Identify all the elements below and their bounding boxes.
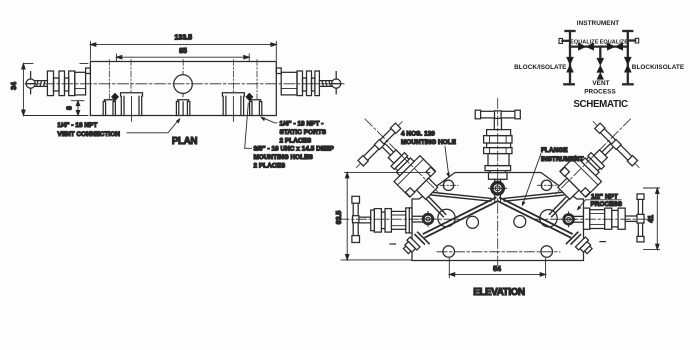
purge plug left	[401, 237, 420, 256]
equalize valve right	[607, 43, 622, 50]
right diagonal valve V7	[543, 119, 642, 218]
instrument port center	[488, 173, 507, 202]
vent line	[599, 47, 601, 60]
svg-text:1/4" - 18 NPT: 1/4" - 18 NPT	[57, 122, 97, 129]
svg-text:54: 54	[493, 266, 501, 273]
mounting hole top-left	[443, 180, 453, 190]
passage left end cap	[415, 232, 429, 244]
right valve V2 nut stack (plan)	[297, 71, 303, 96]
port marker diamond right	[245, 93, 253, 102]
instrument line right	[623, 31, 633, 84]
purge plug right	[575, 237, 594, 256]
instrument line left	[564, 31, 574, 84]
svg-text:2 PLACES: 2 PLACES	[254, 163, 286, 170]
dimension 54	[449, 259, 545, 278]
svg-text:1/4" - 18 NPT -: 1/4" - 18 NPT -	[280, 121, 324, 128]
static port cap P3 (plan)	[250, 100, 262, 116]
leader static ports	[262, 118, 277, 123]
leader mounting hole	[445, 147, 449, 175]
dimension 34	[22, 64, 88, 116]
cap centerlines (plan)	[109, 60, 257, 100]
right process valve V5	[584, 194, 645, 242]
manifold body (plan)	[90, 62, 276, 116]
port marker diamond left	[111, 93, 119, 102]
vent valve	[597, 58, 604, 72]
equalize line	[570, 45, 628, 47]
svg-text:EQUALIZE: EQUALIZE	[570, 39, 599, 45]
mounting cap M1 (plan)	[121, 93, 143, 116]
vent cap P2 (plan)	[176, 100, 189, 116]
svg-text:85: 85	[179, 48, 187, 55]
svg-text:BLOCK/ISOLATE: BLOCK/ISOLATE	[632, 64, 685, 71]
left process valve V4	[352, 196, 412, 242]
svg-text:PROCESS: PROCESS	[584, 88, 616, 95]
mounting cap M2 (plan)	[222, 93, 244, 116]
dimension 63.5	[341, 172, 430, 260]
svg-text:41: 41	[648, 215, 655, 223]
svg-text:INSTRUMENT: INSTRUMENT	[577, 20, 619, 27]
passage right upper	[504, 192, 568, 217]
svg-text:FLANGE: FLANGE	[541, 147, 568, 154]
top valve V3	[475, 110, 520, 172]
manifold body (elevation)	[412, 173, 584, 261]
static port cap P1 (plan)	[103, 100, 115, 116]
left end tab	[86, 68, 91, 74]
svg-text:PROCESS: PROCESS	[591, 201, 623, 208]
leader flange instrument	[523, 154, 541, 204]
right valve V2 handle knob (plan)	[332, 79, 341, 88]
svg-text:EQUALIZE: EQUALIZE	[600, 39, 629, 45]
dimension 8	[72, 101, 85, 116]
left valve V1 handle knob (plan)	[26, 79, 35, 88]
svg-text:STATIC PORTS: STATIC PORTS	[280, 129, 327, 136]
right valve V2 stem (plan)	[319, 81, 331, 87]
vent arrow	[597, 73, 603, 80]
svg-text:BLOCK/ISOLATE: BLOCK/ISOLATE	[514, 64, 567, 71]
left diagonal valve V6	[354, 119, 453, 218]
svg-text:VENT CONNECTION: VENT CONNECTION	[57, 131, 120, 138]
svg-text:1/2" NPT: 1/2" NPT	[591, 193, 618, 200]
leader vent connection	[127, 120, 179, 133]
svg-text:PLAN: PLAN	[172, 136, 198, 147]
leader mounting holes	[245, 103, 252, 148]
svg-text:133.5: 133.5	[175, 35, 193, 42]
left valve V1 flange block (plan)	[75, 72, 86, 95]
stray dash right	[600, 241, 606, 243]
plan main centerline	[25, 83, 344, 85]
dimension 41	[644, 188, 660, 250]
leader process npt	[579, 200, 622, 209]
bore circle left	[438, 209, 455, 226]
mounting hole top-right	[541, 180, 551, 190]
svg-text:VENT: VENT	[592, 80, 609, 87]
left valve V1 stem (plan)	[35, 81, 47, 87]
bore circle mid-right	[514, 216, 526, 228]
mounting hole bottom-left	[443, 246, 455, 258]
svg-text:ELEVATION: ELEVATION	[473, 287, 525, 298]
port hex left	[413, 212, 435, 227]
passage left leg	[424, 198, 498, 238]
left stub connection	[563, 40, 571, 42]
right end tab	[276, 68, 281, 74]
port hex right	[561, 212, 583, 227]
bore circle right	[540, 210, 557, 227]
mounting hole bottom-right	[541, 246, 553, 258]
svg-text:8: 8	[67, 106, 74, 110]
left valve V1 nut stack (plan)	[69, 71, 75, 96]
svg-text:3/8" - 16 UNC x 14.5 DEEP: 3/8" - 16 UNC x 14.5 DEEP	[254, 146, 335, 153]
passage left upper	[427, 192, 491, 217]
passage right end cap	[567, 232, 581, 244]
dimension 133.5	[90, 41, 276, 60]
bore circle mid-left	[467, 216, 479, 228]
svg-text:2 PLACES: 2 PLACES	[280, 138, 312, 145]
stray dash left	[390, 243, 396, 245]
svg-text:INSTRUMENT: INSTRUMENT	[541, 156, 583, 163]
svg-text:63.5: 63.5	[336, 211, 343, 225]
svg-text:MOUNTING HOLES: MOUNTING HOLES	[254, 154, 314, 161]
dimension 85	[116, 54, 249, 61]
instrument flange circle (plan)	[174, 75, 193, 94]
block valve right	[624, 57, 631, 72]
right valve V2 flange block (plan)	[281, 72, 297, 95]
svg-text:MOUNTING HOLE: MOUNTING HOLE	[401, 139, 457, 146]
right stub connection	[628, 39, 635, 41]
centerlines (elevation)	[339, 99, 650, 273]
svg-text:4 NOS. 120: 4 NOS. 120	[401, 131, 435, 138]
svg-text:34: 34	[11, 82, 18, 90]
passage right leg	[498, 198, 572, 238]
svg-text:SCHEMATIC: SCHEMATIC	[573, 99, 628, 110]
equalize valve left	[578, 43, 593, 50]
block valve left	[567, 57, 574, 72]
